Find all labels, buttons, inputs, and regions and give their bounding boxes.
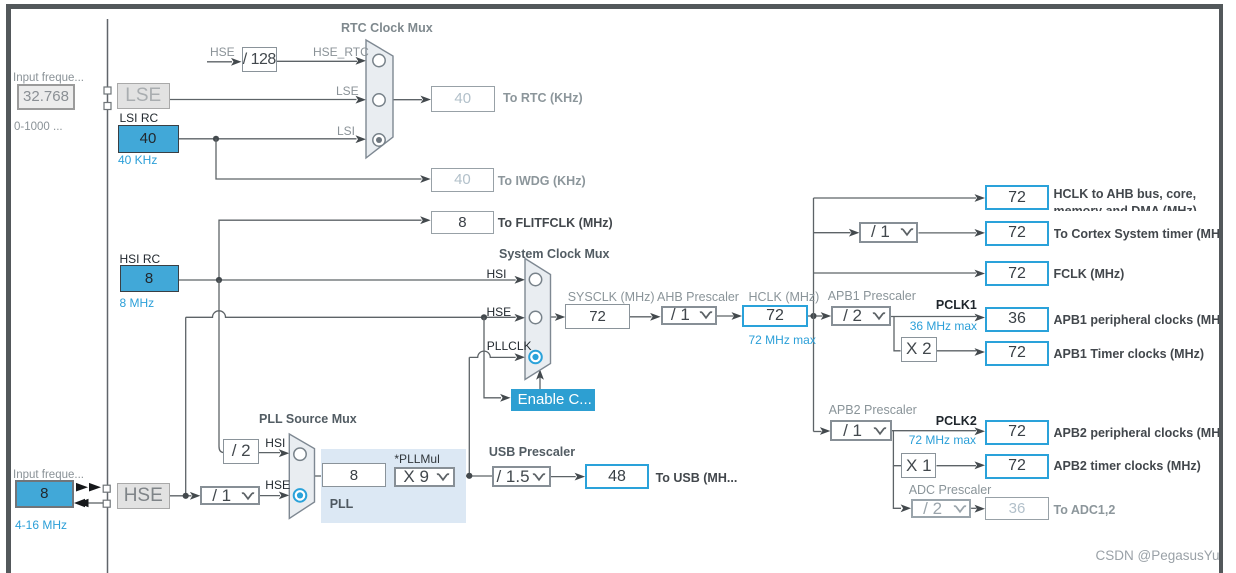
wire HSE riser and run to System Clock Mux HSE input (hop over HSI riser) <box>186 311 516 496</box>
wire PLL mux output into PLL block input box <box>315 475 322 477</box>
label PCLK2 <box>936 414 977 428</box>
box Cortex timer output <box>985 221 1049 246</box>
box FCLK output <box>985 261 1049 286</box>
PLL block background panel <box>321 449 466 523</box>
RTC mux radio LSI selected <box>373 134 385 146</box>
label input frequency (LSE) <box>13 72 84 84</box>
label APB2 peripheral clocks <box>1054 426 1219 440</box>
wire APB2 branch down to X1 multiplier <box>893 431 901 466</box>
wire APB2 branch down to ADC prescaler <box>893 466 901 509</box>
label 40 KHz <box>118 153 157 167</box>
box PLL input value 8 <box>322 463 387 487</box>
box To USB 48 <box>585 464 649 489</box>
System mux radio HSI <box>529 273 541 285</box>
label To Cortex System timer <box>1054 227 1219 241</box>
RTC mux radio LSE <box>373 94 385 106</box>
dropdown ADC prescaler /2 disabled <box>911 499 971 518</box>
label System Clock Mux <box>499 247 609 261</box>
box HSE oscillator <box>117 483 171 509</box>
box HSE input frequency 8 <box>15 480 74 508</box>
label LSI stub at mux <box>337 124 355 138</box>
System mux radio PLLCLK selected <box>529 351 542 364</box>
wire APB1 branch down into X2 multiplier <box>894 317 901 351</box>
label HSE stub <box>210 45 235 59</box>
wire HSE /1 divider to PLL mux HSE input <box>260 495 280 497</box>
label *PLLMul <box>394 452 439 466</box>
label To ADC1,2 <box>1054 503 1116 517</box>
wire HSI RC to System Clock Mux HSI input <box>179 279 516 281</box>
box /128 divider <box>242 47 278 72</box>
label APB2 timer clocks <box>1054 459 1201 473</box>
wire LSI to IWDG <box>216 139 422 179</box>
wire PLLCLK riser to System Clock Mux PLLCLK input (hop over CSS drop) <box>469 351 515 476</box>
label AHB Prescaler <box>657 290 739 304</box>
dropdown PLLMul X9 <box>394 467 455 488</box>
PLL mux radio HSI <box>294 448 306 460</box>
box X1 multiplier <box>901 453 936 478</box>
box LSE oscillator <box>117 83 171 109</box>
label APB1 peripheral clocks <box>1054 313 1219 327</box>
box HCLK 72 <box>742 305 808 327</box>
junction HSE output node <box>183 493 189 499</box>
wire ADC prescaler to ADC box <box>971 507 976 509</box>
box APB2 peripheral output <box>985 420 1049 445</box>
junction HSE node at mux <box>481 314 487 320</box>
wire rail bottom corner to APB2 prescaler <box>814 431 822 433</box>
label USB Prescaler <box>489 445 575 459</box>
junction HSI node <box>216 277 222 283</box>
PLL source mux shape <box>289 434 314 518</box>
junction HCLK node on right rail <box>810 313 816 319</box>
box HSI RC 8 <box>120 265 179 293</box>
box APB2 timer output <box>985 454 1049 479</box>
wire System Clock Mux output to SYSCLK box <box>551 316 557 318</box>
label 36 MHz max <box>910 319 977 333</box>
wire X2 to APB1 timer box <box>937 350 976 352</box>
bidirectional arrows input freq to HSE <box>76 483 88 492</box>
dropdown USB prescaler /1.5 <box>492 466 550 487</box>
label 0-1000 range <box>14 121 63 133</box>
dropdown APB1 prescaler /2 <box>831 306 891 327</box>
label input frequency (HSE) <box>13 469 84 481</box>
wire HSI branch down to PLL /2 divider <box>219 280 224 453</box>
box To RTC value <box>431 86 495 112</box>
label HSE at PLL mux <box>265 478 290 492</box>
port squares at LSE <box>104 87 111 94</box>
wire Enable CSS button up into mux select pin <box>539 377 541 389</box>
label PLL Source Mux <box>259 412 357 426</box>
label APB1 Prescaler <box>828 289 916 303</box>
label LSI RC <box>120 111 159 125</box>
label 4-16 MHz <box>15 518 67 532</box>
wire HSE stub into /128 divider <box>207 61 232 63</box>
wire left panel rail <box>107 19 109 573</box>
label PCLK1 <box>936 298 977 312</box>
wire HSE box to HSE /1 divider <box>170 495 192 497</box>
label LSE stub at mux <box>336 84 359 98</box>
box APB1 timer output <box>985 341 1049 366</box>
label 72 MHz max <box>749 333 816 347</box>
button Enable CSS <box>511 389 596 411</box>
wire LSI RC to RTC mux LSI input <box>179 138 357 140</box>
wire HSI /2 divider to PLL mux HSI input <box>259 452 280 454</box>
System mux radio HSE <box>529 311 541 323</box>
wire X1 to APB2 timer box <box>937 465 977 467</box>
box X2 multiplier <box>901 337 937 363</box>
label 72 MHz max APB2 <box>909 433 976 447</box>
box LSE input frequency 32.768 <box>17 84 75 111</box>
label HSE_RTC <box>313 45 369 59</box>
label To USB <box>656 471 738 485</box>
dropdown AHB prescaler /1 <box>661 306 718 326</box>
wire HSI branch to FLITFCLK <box>219 220 422 280</box>
wire HCLK node to APB1 prescaler <box>816 315 823 317</box>
label APB1 Timer clocks <box>1054 347 1205 361</box>
RTC clock mux shape <box>366 40 393 158</box>
dropdown HSE /1 divider <box>200 486 260 506</box>
watermark CSDN <box>1096 548 1223 563</box>
wire /128 to RTC mux HSE_RTC input <box>277 60 357 62</box>
wire rail to FCLK box <box>814 272 977 274</box>
wire rail to Cortex prescaler <box>814 232 851 234</box>
label ADC Prescaler <box>909 483 992 497</box>
wire Cortex prescaler to Cortex timer box <box>919 232 977 234</box>
wire from left arrows to HSE port <box>89 502 104 504</box>
wire APB1 prescaler to APB1 peripheral box <box>891 316 976 318</box>
System clock mux shape <box>525 259 551 380</box>
dropdown Cortex prescaler /1 <box>859 222 918 243</box>
label 8 MHz <box>120 296 155 310</box>
wire HSE node down to Enable CSS button <box>484 317 501 398</box>
label RTC Clock Mux <box>341 21 433 35</box>
wire PLL input box to PLLMul <box>386 475 394 477</box>
wire LSE to RTC mux LSE input <box>170 99 357 101</box>
wire HCLK box to right rail <box>808 315 814 317</box>
wire AHB Prescaler to HCLK box <box>717 315 734 317</box>
box HSI /2 divider <box>223 439 259 463</box>
wire PLLMul output to USB prescaler <box>455 475 492 477</box>
frame top border <box>6 4 1223 9</box>
label HSI RC <box>120 252 161 266</box>
junction PLLCLK node <box>466 473 472 479</box>
dropdown APB2 prescaler /1 <box>830 420 891 440</box>
PLL mux radio HSE selected <box>294 489 307 502</box>
label SYSCLK (MHz) <box>568 290 655 304</box>
wire right rail vertical <box>813 198 815 432</box>
wire USB prescaler to USB box <box>551 476 576 478</box>
frame left border <box>6 4 11 573</box>
box ADC output 36 <box>985 497 1049 520</box>
junction LSI node <box>213 136 219 142</box>
box HCLK to AHB output <box>985 185 1049 210</box>
wire RTC mux output to To-RTC box <box>393 99 422 101</box>
box APB1 peripheral output <box>985 307 1049 332</box>
box LSI RC 40 <box>118 125 179 153</box>
frame right border <box>1219 4 1224 573</box>
wire rail to HCLK-AHB output box <box>814 197 977 199</box>
box SYSCLK 72 <box>565 304 630 329</box>
label HSI input <box>487 267 507 281</box>
RTC mux radio HSE_RTC <box>373 54 385 66</box>
label PLL <box>330 497 354 511</box>
label To FLITFCLK (MHz) <box>498 216 613 230</box>
label To IWDG (KHz) <box>498 174 586 188</box>
label HCLK to AHB bus core memory and DMA <box>1054 186 1219 211</box>
label HSI at PLL mux <box>265 436 285 450</box>
port squares at HSE <box>103 485 110 492</box>
wire SYSCLK to AHB Prescaler <box>630 316 652 318</box>
box To IWDG value <box>431 168 495 192</box>
label HSE input <box>487 305 512 319</box>
label HCLK (MHz) <box>749 290 820 304</box>
label To RTC (KHz) <box>503 91 583 105</box>
label PLLCLK input <box>487 339 532 353</box>
box To FLITFCLK value <box>431 211 495 235</box>
label FCLK (MHz) <box>1054 267 1125 281</box>
wire APB2 prescaler to APB2 peripheral box <box>892 430 976 432</box>
label APB2 Prescaler <box>829 403 917 417</box>
